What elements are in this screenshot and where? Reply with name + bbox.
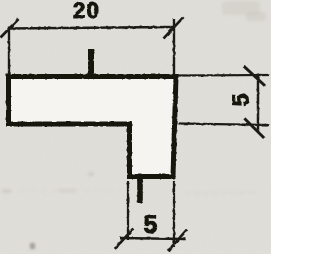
svg-text:20: 20 <box>73 0 100 23</box>
extension line right (dim 20) <box>173 19 175 76</box>
slash tick right (dim 20) <box>164 17 184 39</box>
slash tick left (dim 20) <box>1 19 19 38</box>
extension line right-top (dim 5 right) <box>178 74 269 77</box>
slash tick bottom (dim 5 right) <box>244 118 264 138</box>
extension line right-bottom (dim 5 right) <box>178 124 269 126</box>
svg-text:5: 5 <box>144 211 158 239</box>
extension line bottom-right (dim 5 bottom) <box>173 181 175 247</box>
T-profile interior <box>9 77 177 177</box>
slash tick top (dim 5 right) <box>244 66 265 86</box>
extension line bottom-left (dim 5 bottom) <box>127 181 129 240</box>
slash tick left (dim 5 bottom) <box>115 229 134 249</box>
T-profile outline <box>9 77 177 177</box>
tick below stem <box>137 179 143 203</box>
dimension line 5 bottom <box>120 238 186 239</box>
slash tick right (dim 5 bottom) <box>168 230 187 252</box>
dimension line 5 right <box>257 74 260 133</box>
extension line left (dim 20) <box>8 27 10 76</box>
svg-text:5: 5 <box>228 93 254 106</box>
dimension line 20 <box>9 27 174 29</box>
centre tick on top flange <box>88 49 94 75</box>
